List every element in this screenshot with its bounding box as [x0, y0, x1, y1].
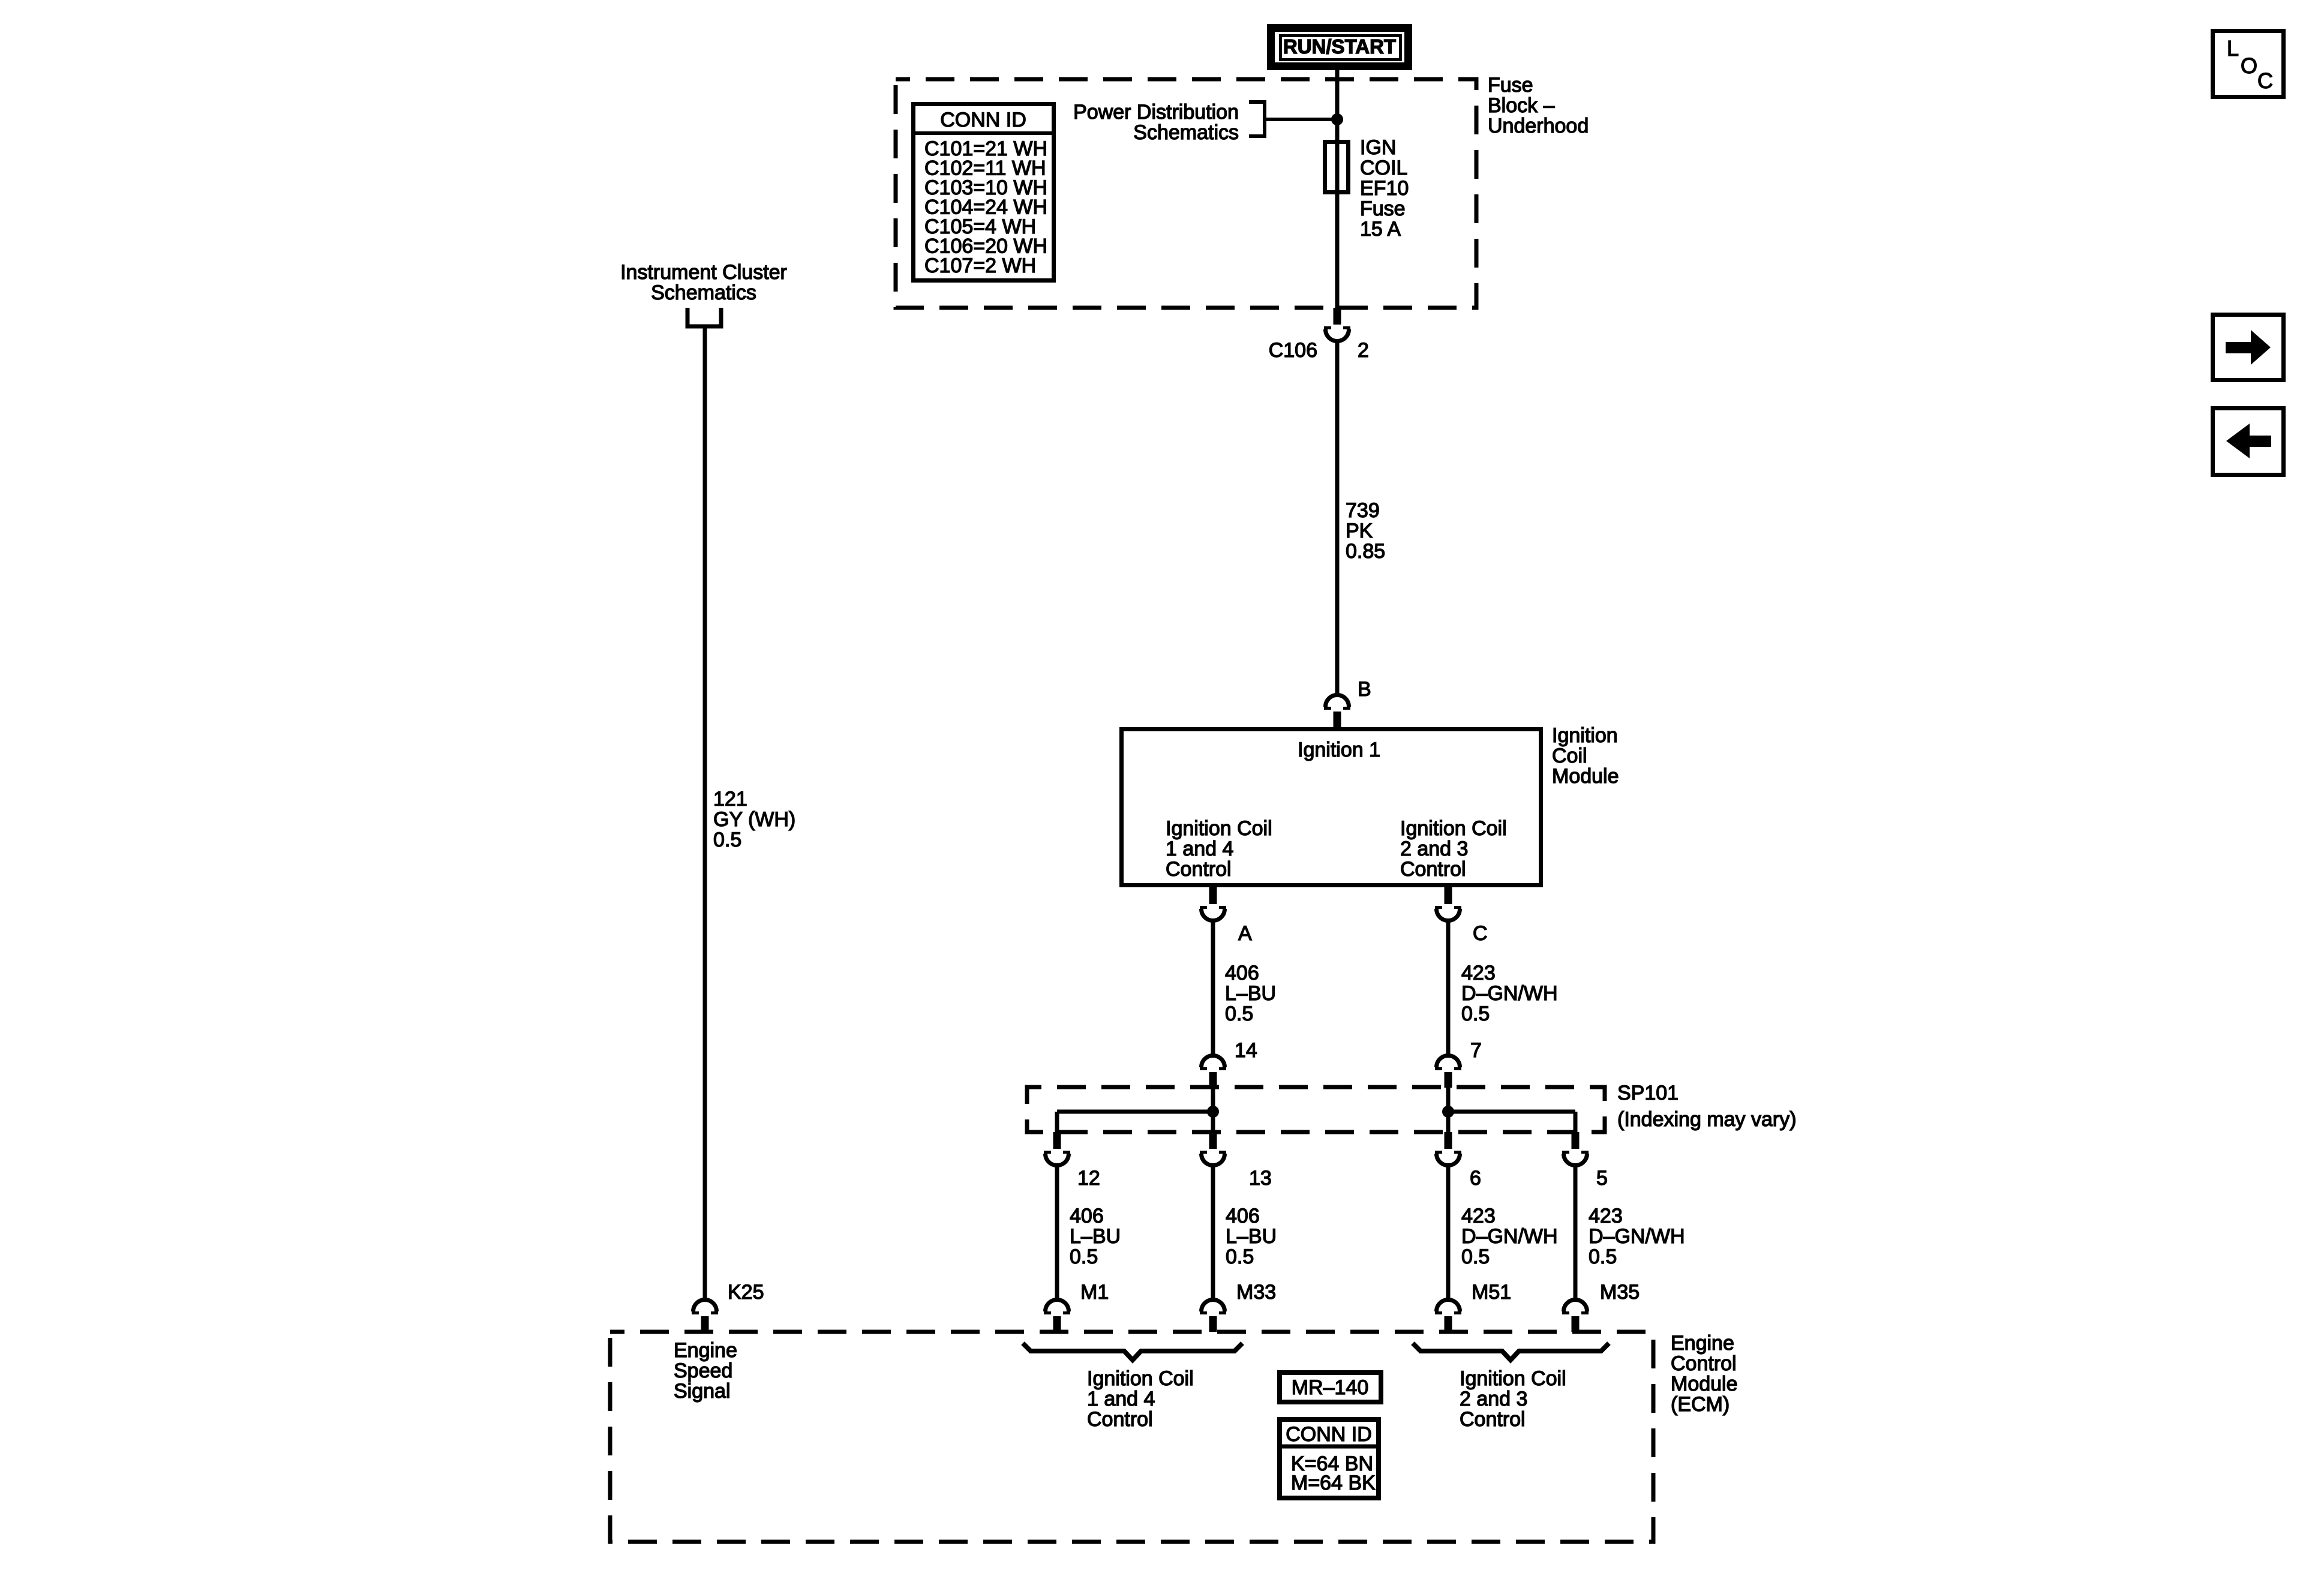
svg-text:IGN: IGN [1360, 136, 1396, 159]
svg-text:13: 13 [1249, 1167, 1272, 1190]
svg-text:D–GN/WH: D–GN/WH [1461, 982, 1558, 1005]
svg-text:D–GN/WH: D–GN/WH [1589, 1225, 1685, 1248]
svg-text:Control: Control [1166, 858, 1232, 881]
svg-text:D–GN/WH: D–GN/WH [1461, 1225, 1558, 1248]
svg-text:M1: M1 [1080, 1281, 1109, 1304]
svg-text:Underhood: Underhood [1488, 115, 1589, 137]
svg-text:0.85: 0.85 [1346, 540, 1385, 563]
svg-text:Ignition Coil: Ignition Coil [1087, 1367, 1194, 1390]
svg-text:Schematics: Schematics [651, 281, 756, 304]
svg-text:L: L [2227, 36, 2239, 61]
svg-text:Control: Control [1400, 858, 1466, 881]
svg-text:0.5: 0.5 [1070, 1245, 1098, 1268]
svg-text:739: 739 [1346, 499, 1380, 522]
svg-text:406: 406 [1226, 1205, 1260, 1227]
svg-text:423: 423 [1461, 962, 1496, 984]
svg-text:2: 2 [1358, 339, 1369, 362]
svg-text:Ignition 1: Ignition 1 [1298, 739, 1380, 761]
svg-text:GY (WH): GY (WH) [713, 808, 795, 831]
svg-text:Schematics: Schematics [1133, 121, 1239, 144]
svg-text:Instrument Cluster: Instrument Cluster [620, 261, 787, 284]
svg-text:6: 6 [1470, 1167, 1481, 1190]
svg-text:Module: Module [1552, 765, 1619, 788]
svg-text:0.5: 0.5 [1461, 1002, 1490, 1025]
svg-text:SP101: SP101 [1617, 1082, 1679, 1104]
svg-text:423: 423 [1589, 1205, 1623, 1227]
svg-text:C106: C106 [1269, 339, 1317, 362]
svg-text:2 and 3: 2 and 3 [1400, 837, 1468, 860]
svg-text:406: 406 [1070, 1205, 1104, 1227]
svg-text:121: 121 [713, 788, 747, 810]
svg-text:Module: Module [1671, 1373, 1738, 1395]
svg-text:5: 5 [1596, 1167, 1608, 1190]
svg-text:COIL: COIL [1360, 157, 1407, 179]
svg-text:Ignition Coil: Ignition Coil [1400, 817, 1507, 840]
svg-text:O: O [2241, 53, 2257, 78]
svg-text:L–BU: L–BU [1070, 1225, 1121, 1248]
svg-text:M33: M33 [1236, 1281, 1276, 1304]
svg-text:L–BU: L–BU [1226, 1225, 1277, 1248]
svg-text:15 A: 15 A [1360, 218, 1401, 241]
svg-text:0.5: 0.5 [1461, 1245, 1490, 1268]
svg-text:14: 14 [1235, 1039, 1257, 1062]
svg-text:0.5: 0.5 [1589, 1245, 1617, 1268]
svg-text:C107=2 WH: C107=2 WH [924, 254, 1036, 277]
svg-text:Control: Control [1460, 1408, 1526, 1431]
svg-text:Fuse: Fuse [1360, 197, 1406, 220]
svg-text:Coil: Coil [1552, 745, 1587, 767]
svg-text:M=64 BK: M=64 BK [1291, 1472, 1376, 1494]
svg-text:Block –: Block – [1488, 94, 1555, 117]
svg-text:0.5: 0.5 [1225, 1002, 1253, 1025]
svg-text:K25: K25 [728, 1281, 764, 1304]
svg-text:M35: M35 [1600, 1281, 1640, 1304]
svg-text:Control: Control [1671, 1352, 1737, 1375]
svg-text:423: 423 [1461, 1205, 1496, 1227]
svg-text:406: 406 [1225, 962, 1259, 984]
svg-text:EF10: EF10 [1360, 177, 1409, 200]
svg-text:Signal: Signal [674, 1380, 731, 1403]
svg-text:1 and 4: 1 and 4 [1087, 1388, 1155, 1410]
svg-text:B: B [1358, 678, 1371, 701]
svg-text:Power Distribution: Power Distribution [1073, 101, 1239, 124]
svg-text:CONN ID: CONN ID [940, 109, 1026, 131]
svg-text:2 and 3: 2 and 3 [1460, 1388, 1527, 1410]
svg-text:1 and 4: 1 and 4 [1166, 837, 1233, 860]
svg-text:Fuse: Fuse [1488, 74, 1533, 97]
svg-text:Ignition Coil: Ignition Coil [1166, 817, 1272, 840]
svg-text:RUN/START: RUN/START [1283, 35, 1396, 58]
svg-text:M51: M51 [1472, 1281, 1511, 1304]
svg-text:0.5: 0.5 [1226, 1245, 1254, 1268]
svg-text:Engine: Engine [674, 1339, 737, 1362]
svg-text:Control: Control [1087, 1408, 1153, 1431]
svg-text:L–BU: L–BU [1225, 982, 1276, 1005]
svg-text:CONN ID: CONN ID [1286, 1423, 1372, 1446]
svg-text:(Indexing may vary): (Indexing may vary) [1617, 1108, 1797, 1131]
svg-text:MR–140: MR–140 [1292, 1376, 1369, 1399]
svg-text:(ECM): (ECM) [1671, 1393, 1730, 1416]
svg-text:12: 12 [1077, 1167, 1100, 1190]
svg-text:PK: PK [1346, 520, 1373, 542]
svg-text:0.5: 0.5 [713, 828, 741, 851]
svg-text:A: A [1238, 922, 1252, 945]
svg-text:C: C [1473, 922, 1488, 945]
svg-text:Ignition: Ignition [1552, 724, 1618, 747]
svg-text:Ignition Coil: Ignition Coil [1460, 1367, 1566, 1390]
svg-text:7: 7 [1470, 1039, 1482, 1062]
svg-text:Engine: Engine [1671, 1332, 1734, 1355]
svg-text:Speed: Speed [674, 1359, 732, 1382]
svg-text:C: C [2257, 68, 2273, 93]
